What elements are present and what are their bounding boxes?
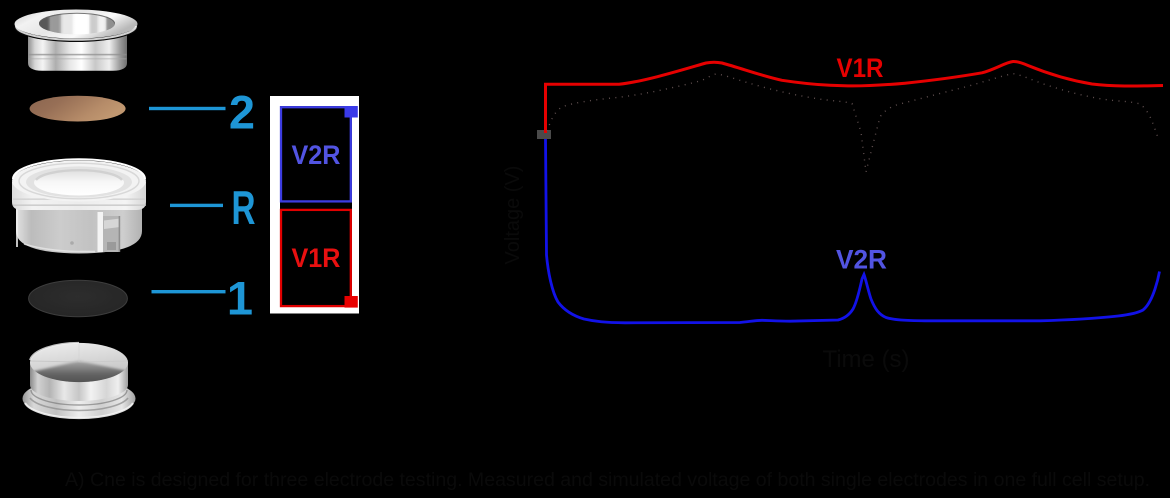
red box V1R [281,210,351,306]
pointer line 2 [149,107,226,110]
svg-text:2: 2 [229,86,255,139]
svg-text:R: R [232,181,256,234]
svg-text:V1R: V1R [292,243,341,273]
pointer line R [170,204,223,207]
svg-text:A) Cne is designed for three e: A) Cne is designed for three electrode t… [65,470,1150,491]
bottom steel cup [23,343,136,418]
svg-text:Time (s): Time (s) [822,346,909,373]
top steel cap [15,10,138,71]
copper disc [30,96,126,122]
svg-text:V1R: V1R [837,53,884,83]
dotted full cell curve [547,74,1159,172]
svg-text:Voltage (V): Voltage (V) [502,166,524,265]
pointer line 1 [152,290,226,293]
blue curve V2R [546,139,1160,323]
blue corner square [345,106,358,118]
red corner square [345,296,358,308]
red curve V1R [546,61,1164,133]
gray start tick [537,130,551,139]
svg-text:1: 1 [227,272,253,325]
svg-text:V2R: V2R [836,245,887,275]
white frame [270,96,359,314]
blue box V2R [281,107,351,201]
plastic cell body R [12,159,146,253]
svg-text:V2R: V2R [292,140,341,170]
black disc [29,280,128,316]
